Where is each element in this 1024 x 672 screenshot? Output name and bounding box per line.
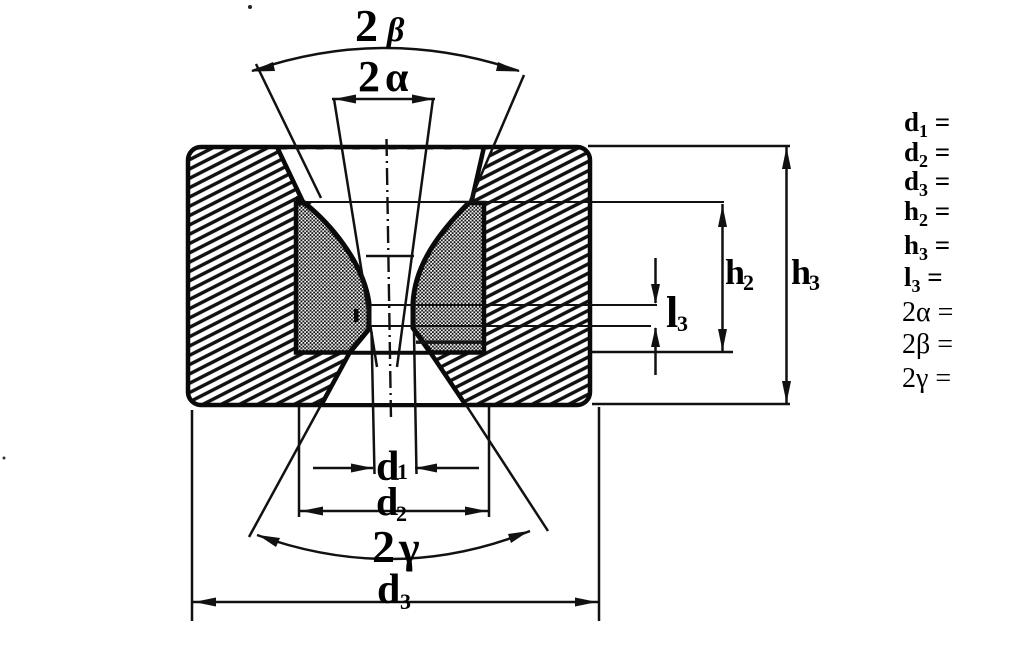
d2 arrow right xyxy=(465,507,487,516)
svg-text:2β =: 2β = xyxy=(902,329,953,360)
2-gamma arc arrow right xyxy=(508,531,529,543)
2-gamma arc arrow left xyxy=(258,535,280,547)
bottom extension line (die bottom to h3) xyxy=(592,403,790,406)
d1 dimension line right segment xyxy=(415,467,479,470)
d2 arrow left xyxy=(301,507,323,516)
2-alpha dimension line xyxy=(332,98,435,101)
2-beta arc arrow right xyxy=(496,62,520,72)
l3 lower arrow xyxy=(651,327,660,347)
stray speck left xyxy=(3,457,6,460)
svg-text:d1 =: d1 = xyxy=(904,107,950,141)
2-alpha arrow right xyxy=(412,95,434,104)
nib hole wall right xyxy=(413,204,468,353)
h2 arrow bottom xyxy=(718,329,727,351)
bell entry cut (white) xyxy=(277,150,493,204)
stray speck top xyxy=(248,5,252,9)
l3 lower arrow shaft xyxy=(654,328,657,375)
die body (steel casing, hatched) xyxy=(188,147,590,405)
svg-text:d: d xyxy=(376,479,398,524)
svg-text:h2 =: h2 = xyxy=(904,196,950,230)
svg-text:d: d xyxy=(377,567,400,613)
ink blob in left stipple xyxy=(354,309,359,322)
svg-text:1: 1 xyxy=(397,459,408,484)
h2 top extension line (nib top) xyxy=(305,201,724,203)
d3 extension line left xyxy=(191,410,194,621)
h2 bottom extension line (nib bottom) xyxy=(590,351,733,354)
d3 dimension line xyxy=(192,601,599,604)
d1 extension line left xyxy=(372,332,375,474)
d1 extension line right xyxy=(414,332,417,474)
exit cone cut (white) xyxy=(321,354,466,403)
d3 arrow right xyxy=(575,598,597,607)
svg-text:h3 =: h3 = xyxy=(904,230,950,264)
centerline cross tick xyxy=(366,255,414,257)
bell wall left xyxy=(277,147,304,204)
h3 arrow top xyxy=(782,147,791,169)
2-alpha cone line right xyxy=(397,99,433,367)
d2 extension line left xyxy=(298,407,301,517)
ink blob at nib corner xyxy=(296,196,312,206)
exit cone wall right xyxy=(430,352,466,406)
2-gamma arc xyxy=(257,531,530,559)
2-beta arc xyxy=(252,48,519,71)
d1 dimension line left segment xyxy=(313,467,373,470)
nib hole profile (white) xyxy=(305,203,468,351)
h3 dimension line xyxy=(785,146,788,404)
l3 lower extension line xyxy=(366,325,651,327)
d2 dimension line xyxy=(299,510,489,513)
svg-text:β: β xyxy=(385,12,405,49)
carbide nib (stippled core) xyxy=(296,203,484,353)
d1 arrow left xyxy=(351,464,373,473)
h3 arrow bottom xyxy=(782,381,791,403)
2-beta line right xyxy=(470,75,524,201)
nib top edge thin across hole xyxy=(306,200,450,205)
svg-text:2γ =: 2γ = xyxy=(902,363,951,394)
2-gamma line right xyxy=(466,405,548,531)
svg-text:d3 =: d3 = xyxy=(904,166,950,200)
l3 upper arrow shaft xyxy=(654,258,657,303)
2-gamma line left xyxy=(249,405,321,537)
svg-text:3: 3 xyxy=(809,270,820,295)
centerline (dash-dot) xyxy=(387,139,392,419)
svg-text:3: 3 xyxy=(677,311,688,336)
svg-text:α: α xyxy=(385,55,409,101)
d2 extension line right xyxy=(488,407,491,517)
svg-text:2: 2 xyxy=(358,52,380,101)
2-beta line left xyxy=(256,64,321,198)
l3 upper extension line xyxy=(370,304,657,306)
exit cone wall left xyxy=(321,352,350,406)
nib hole wall left xyxy=(305,204,369,353)
svg-text:2: 2 xyxy=(396,501,407,526)
svg-text:2: 2 xyxy=(372,521,395,572)
svg-text:3: 3 xyxy=(400,589,411,614)
dark band in right stipple xyxy=(416,341,482,344)
d3 arrow left xyxy=(194,598,216,607)
bell wall right xyxy=(471,147,484,204)
d1 arrow right xyxy=(415,464,437,473)
svg-text:2: 2 xyxy=(355,0,378,51)
svg-text:l3 =: l3 = xyxy=(904,262,943,296)
d3 extension line right xyxy=(598,407,601,621)
2-alpha cone line left xyxy=(334,99,377,367)
h2 dimension line xyxy=(721,204,724,352)
svg-text:γ: γ xyxy=(398,523,420,572)
h2 arrow top xyxy=(718,205,727,227)
svg-text:2: 2 xyxy=(743,270,754,295)
2-beta arc arrow left xyxy=(251,62,275,72)
l3 upper arrow xyxy=(651,284,660,304)
h3 top extension line xyxy=(588,145,790,148)
2-alpha arrow left xyxy=(334,95,356,104)
svg-text:2α =: 2α = xyxy=(902,297,953,328)
